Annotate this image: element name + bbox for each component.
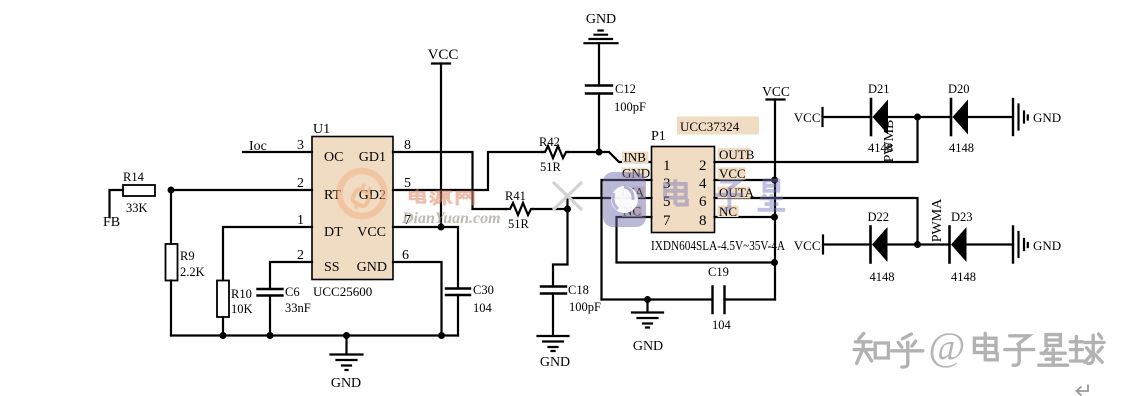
wire top GND to C12 — [598, 43, 600, 85]
capacitor C18 — [541, 283, 601, 314]
svg-text:VCC: VCC — [719, 166, 746, 181]
svg-text:GND: GND — [1033, 110, 1061, 125]
svg-text:VCC: VCC — [794, 110, 821, 125]
power VCC above P1 — [762, 84, 790, 300]
svg-text:C12: C12 — [615, 82, 636, 96]
svg-text:@: @ — [929, 324, 966, 369]
wire ground rail — [171, 334, 458, 336]
ground symbol top — [585, 12, 618, 43]
resistor R9 — [166, 244, 205, 281]
wire GD2 pin5 to R42 — [393, 152, 542, 190]
U1 pin 8 GD1 number — [404, 138, 411, 153]
wire GD1 pin8 to R41 — [393, 152, 506, 209]
diode D20 — [948, 82, 974, 155]
ground symbol bottom left — [331, 336, 363, 392]
U1 pin 7 VCC number — [404, 213, 411, 228]
svg-text:D21: D21 — [868, 82, 890, 96]
svg-text:51R: 51R — [508, 217, 530, 231]
wire C19 right to VCC line — [725, 298, 776, 300]
pin label NC left — [622, 204, 642, 219]
junction P1 gnd stem — [644, 296, 651, 303]
junction D21 D20 node — [914, 114, 921, 121]
wire FB to R14 left — [110, 190, 124, 217]
svg-text:GND: GND — [540, 355, 570, 370]
wire R9 bottom to ground rail — [170, 281, 172, 336]
pin label VCC right — [718, 166, 746, 181]
svg-text:GD1: GD1 — [359, 150, 386, 165]
svg-text:SS: SS — [324, 260, 340, 275]
ground symbol right row1 — [1013, 99, 1061, 135]
ground symbol below P1 — [632, 300, 663, 355]
diode D22 — [868, 210, 895, 284]
pin label OUTA — [718, 185, 755, 200]
pin label INB — [622, 150, 649, 165]
pin label GND left — [622, 166, 651, 181]
ground symbol below C18 — [538, 336, 571, 370]
wire GND pin6 to rail — [393, 262, 442, 336]
svg-text:10K: 10K — [231, 302, 253, 316]
pin label INA — [619, 185, 645, 200]
node Ioc label — [249, 139, 267, 154]
junction ground stem — [343, 332, 350, 339]
wire R14 junction down to R9 — [170, 190, 172, 244]
svg-text:GND: GND — [1033, 238, 1061, 253]
watermark blue planet logo — [603, 172, 646, 227]
svg-text:R10: R10 — [231, 287, 252, 301]
svg-text:OUTA: OUTA — [719, 185, 755, 200]
wire C12 to junction — [598, 94, 600, 153]
wire OUTA pin6 — [715, 198, 918, 245]
capacitor C12 — [586, 82, 646, 114]
svg-text:PWMB: PWMB — [882, 120, 897, 163]
wire VCC pin4 — [715, 179, 775, 181]
diode D23 — [950, 210, 977, 284]
svg-text:FB: FB — [103, 215, 120, 230]
svg-text:C18: C18 — [568, 283, 589, 297]
svg-text:R42: R42 — [539, 135, 560, 149]
svg-text:4148: 4148 — [870, 270, 895, 284]
wire INB jog to P1 pin1 — [599, 152, 652, 162]
svg-text:4: 4 — [699, 176, 707, 192]
wire P1 GND pin3 — [602, 180, 652, 300]
wire D22 to D23 — [888, 243, 950, 245]
wire C6 bottom to rail — [269, 296, 271, 336]
svg-text:6: 6 — [699, 194, 707, 210]
pin label NC right — [718, 204, 739, 219]
wire D23 to GND — [967, 243, 1014, 245]
capacitor C6 — [258, 285, 311, 315]
junction C12 R42 — [596, 149, 603, 156]
svg-text:2: 2 — [297, 248, 304, 263]
node FB label — [103, 215, 120, 230]
svg-text:VCC: VCC — [794, 238, 821, 253]
capacitor C19 — [708, 265, 732, 332]
svg-text:UCC37324: UCC37324 — [680, 119, 740, 134]
svg-text:104: 104 — [712, 318, 732, 332]
svg-text:7: 7 — [663, 213, 671, 229]
svg-text:GND: GND — [633, 339, 663, 354]
label UCC37324 — [677, 117, 759, 135]
wire R10 bottom to rail — [222, 317, 224, 336]
svg-text:R9: R9 — [180, 249, 195, 263]
wire R42 to INB junction — [568, 151, 599, 153]
svg-text:U1: U1 — [313, 122, 330, 137]
wire INA from R41 junction to pin5 — [568, 198, 652, 209]
svg-text:DianYuan.com: DianYuan.com — [401, 210, 501, 227]
svg-text:PWMA: PWMA — [930, 198, 945, 242]
junction NC pin8 — [771, 214, 778, 221]
svg-text:UCC25600: UCC25600 — [313, 284, 372, 299]
svg-text:OC: OC — [324, 150, 343, 165]
watermark text dianyuanwang — [410, 190, 473, 204]
junction R14 right node — [168, 187, 175, 194]
junction C6 rail — [267, 332, 274, 339]
junction VCC pin7 — [438, 224, 445, 231]
resistor R10 — [217, 281, 253, 318]
diode D21 — [868, 82, 893, 155]
watermark at sign — [929, 324, 966, 369]
svg-text:51R: 51R — [540, 160, 562, 174]
power VCC port D22 row — [794, 236, 823, 254]
resistor R42 — [539, 135, 568, 174]
IC P1 body — [651, 129, 715, 233]
svg-text:GND: GND — [586, 12, 616, 27]
svg-text:D23: D23 — [951, 210, 973, 224]
U1 pin 2 SS number — [297, 248, 304, 263]
svg-text:33nF: 33nF — [285, 301, 311, 315]
svg-text:IXDN604SLA-4.5V~35V-4A: IXDN604SLA-4.5V~35V-4A — [651, 238, 785, 253]
svg-text:VCC: VCC — [762, 84, 790, 99]
svg-text:100pF: 100pF — [614, 100, 646, 114]
svg-text:R41: R41 — [505, 189, 526, 203]
svg-text:OUTB: OUTB — [719, 147, 755, 162]
watermark text DianYuan.com — [401, 210, 501, 227]
wire C30 bottom to rail — [457, 295, 459, 336]
svg-text:8: 8 — [404, 138, 411, 153]
svg-text:D20: D20 — [948, 82, 970, 96]
capacitor C30 — [446, 283, 494, 315]
power VCC port D21 row — [794, 108, 823, 126]
svg-text:INB: INB — [624, 150, 647, 165]
junction NC rail VCC line — [771, 259, 778, 266]
junction VCC pin4 — [771, 177, 778, 184]
svg-text:C30: C30 — [473, 283, 494, 297]
svg-text:C19: C19 — [708, 265, 729, 279]
U1 pin 1 DT number — [297, 213, 304, 228]
svg-text:DT: DT — [324, 225, 343, 240]
wire VCC to D22 — [823, 243, 871, 245]
svg-text:2: 2 — [297, 176, 304, 191]
IC U1 UCC25600 body — [312, 122, 393, 299]
watermark dianyuan ring logo — [340, 171, 385, 216]
U1 pin 2 RT number — [297, 176, 304, 191]
resistor R14 — [123, 170, 155, 215]
pin label OUTB — [718, 147, 755, 162]
U1 pin 5 GD2 number — [404, 176, 411, 191]
svg-text:3: 3 — [297, 138, 304, 153]
wire C18 branch — [553, 209, 568, 287]
U1 pin 3 OC number — [297, 138, 304, 153]
wire D20 to GND — [968, 116, 1013, 118]
svg-text:P1: P1 — [651, 129, 666, 144]
net label PWMB — [882, 120, 897, 163]
wire D21 to D20 — [888, 116, 951, 118]
wire DT pin1 to R10 — [223, 227, 312, 281]
svg-text:D22: D22 — [868, 210, 890, 224]
wire Ioc to OC pin3 — [243, 151, 312, 153]
svg-text:1: 1 — [297, 213, 304, 228]
junction R41 INA C18 — [564, 206, 571, 213]
wire RT pin2 from R14 junction — [171, 189, 312, 191]
U1 pin 6 GND number — [402, 248, 409, 263]
value label IXDN604SLA — [651, 238, 785, 253]
svg-text:C6: C6 — [285, 285, 300, 299]
svg-text:5: 5 — [404, 176, 411, 191]
watermark text dianzixingqiu blue — [665, 179, 785, 210]
svg-text:2.2K: 2.2K — [180, 265, 205, 279]
resistor R41 — [505, 189, 568, 231]
svg-text:104: 104 — [473, 301, 493, 315]
svg-text:R14: R14 — [123, 170, 145, 184]
power VCC top left — [428, 47, 459, 227]
wire NC pin7 left — [617, 217, 775, 263]
wire C18 to ground — [552, 294, 554, 336]
svg-text:8: 8 — [699, 213, 707, 229]
svg-text:33K: 33K — [126, 201, 148, 215]
ground symbol right row2 — [1013, 227, 1061, 263]
svg-text:2: 2 — [699, 158, 707, 174]
net label PWMA — [930, 198, 945, 242]
wire NC pin8 right — [715, 216, 775, 218]
junction pin6 rail — [438, 332, 445, 339]
svg-text:GND: GND — [357, 260, 387, 275]
watermark return arrow — [1077, 385, 1089, 396]
svg-text:1: 1 — [663, 158, 671, 174]
wire OUTB pin2 — [715, 117, 918, 162]
junction R10 rail — [220, 332, 227, 339]
junction D22 D23 node — [914, 241, 921, 248]
svg-text:VCC: VCC — [428, 47, 459, 63]
svg-text:4148: 4148 — [949, 141, 974, 155]
wire VCC pin7 to C30 — [393, 227, 458, 289]
svg-text:6: 6 — [402, 248, 409, 263]
svg-text:GND: GND — [331, 376, 361, 391]
svg-text:100pF: 100pF — [569, 300, 601, 314]
svg-text:4148: 4148 — [951, 270, 976, 284]
wire SS pin2 to C6 — [270, 262, 312, 289]
watermark zhihu credit text — [854, 333, 1104, 367]
wire VCC to D21 — [823, 116, 872, 118]
svg-text:VCC: VCC — [357, 225, 386, 240]
wire P1 bottom rail — [602, 298, 713, 300]
watermark x mark — [553, 182, 582, 210]
